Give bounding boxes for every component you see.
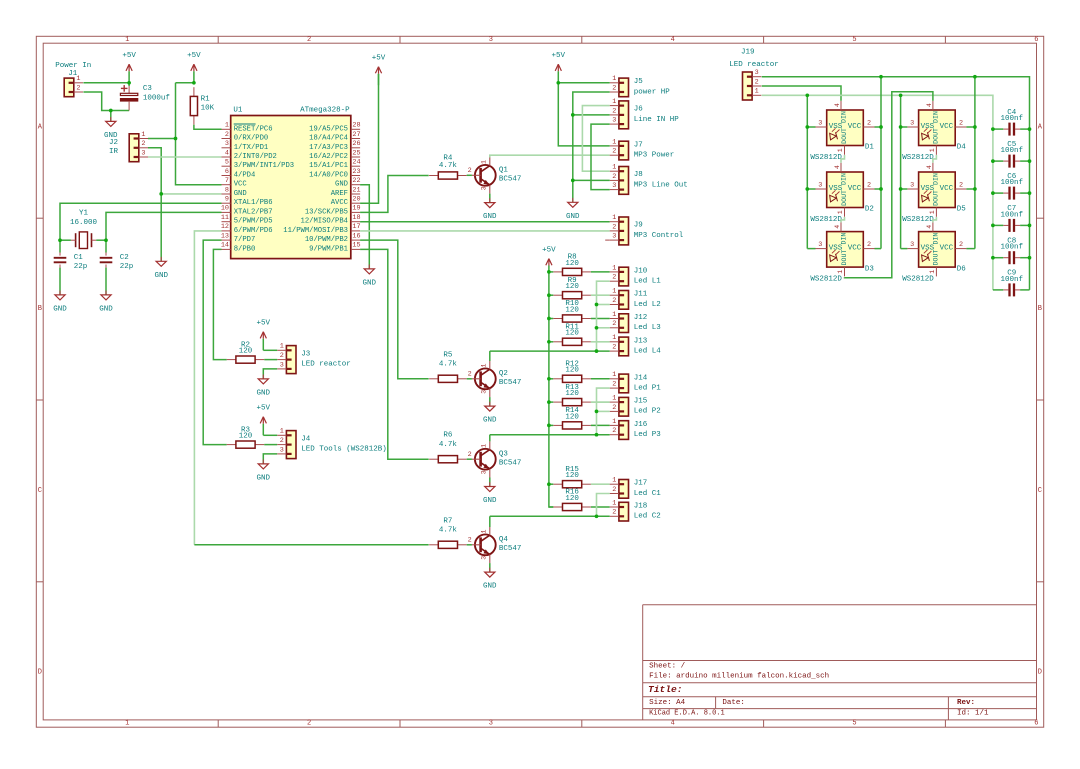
svg-text:WS2812D: WS2812D [902, 276, 934, 284]
svg-text:Sheet: /: Sheet: / [649, 662, 686, 670]
wire R10 right [591, 318, 610, 320]
svg-text:8/PB0: 8/PB0 [234, 245, 256, 253]
wire D2 DOUT to D3 DIN [841, 217, 845, 222]
svg-text:VCC: VCC [848, 185, 862, 193]
svg-text:15: 15 [352, 242, 360, 250]
wire Y1 right [96, 239, 106, 241]
svg-text:J5: J5 [634, 78, 644, 86]
svg-text:26: 26 [352, 140, 360, 148]
wire VCC branch col1 [875, 188, 882, 190]
resistor R9 [553, 277, 591, 299]
wire MISO to J9.1 [360, 221, 610, 223]
wire cap left [993, 224, 1003, 226]
resistor R6 [429, 432, 467, 463]
resistor R1 [190, 87, 214, 125]
svg-text:2: 2 [612, 427, 616, 435]
wire J1.2 to C3/GND [83, 92, 129, 111]
wire cap right [1020, 160, 1029, 162]
wire C2 to GND [105, 268, 107, 295]
J9 pin3 stub [605, 239, 610, 241]
connector J11 [610, 288, 661, 310]
title block [643, 605, 1037, 720]
svg-text:4.7k: 4.7k [439, 441, 458, 449]
wire C1 to GND [59, 268, 61, 295]
svg-text:Q3: Q3 [499, 451, 509, 459]
wire D5 DOUT to D6 DIN [933, 217, 937, 222]
svg-text:14: 14 [221, 242, 229, 250]
svg-text:+5V: +5V [372, 55, 386, 63]
wire GND bus [573, 92, 610, 202]
svg-text:GND: GND [257, 390, 271, 398]
svg-text:+5V: +5V [257, 320, 271, 328]
wire J4.3 to GND [263, 454, 277, 464]
svg-text:1: 1 [929, 270, 936, 274]
svg-text:1: 1 [280, 428, 284, 436]
wire PB2 to R5 [360, 240, 429, 379]
svg-text:4: 4 [225, 149, 229, 157]
svg-text:3: 3 [225, 140, 229, 148]
svg-text:4: 4 [834, 103, 841, 107]
svg-text:J4: J4 [301, 435, 311, 443]
junction [1028, 127, 1032, 131]
svg-text:B: B [38, 305, 42, 313]
svg-text:RESET/PC6: RESET/PC6 [234, 125, 273, 133]
LED driver D5 (WS2812D) [902, 163, 966, 224]
wire VCC branch col2 [966, 248, 975, 250]
svg-text:22: 22 [352, 177, 360, 185]
svg-text:D6: D6 [957, 265, 967, 273]
crystal Y1 16.000 [70, 210, 98, 249]
wire R7 to Q4 base [467, 544, 472, 546]
junction [991, 256, 995, 260]
svg-text:2: 2 [612, 344, 616, 352]
wire R6 to Q3 base [467, 458, 472, 460]
svg-text:12/MISO/PB4: 12/MISO/PB4 [301, 218, 348, 226]
resistor R3 [227, 426, 265, 448]
svg-text:8: 8 [225, 186, 229, 194]
svg-text:DOUT: DOUT [841, 128, 848, 144]
svg-text:VCC: VCC [848, 245, 862, 253]
svg-text:DOUT: DOUT [933, 128, 940, 144]
svg-text:WS2812D: WS2812D [810, 276, 842, 284]
resistor R12 [553, 361, 591, 383]
svg-text:VCC: VCC [940, 245, 954, 253]
svg-text:1: 1 [480, 160, 487, 164]
svg-text:20: 20 [352, 196, 360, 204]
wire cap right [1020, 128, 1029, 130]
svg-text:0/RX/PD0: 0/RX/PD0 [234, 135, 269, 143]
wire J6.3 to J8.3 [591, 124, 610, 190]
wire VSS branch col1 [807, 126, 815, 128]
svg-text:Id: 1/1: Id: 1/1 [957, 710, 989, 718]
svg-text:2: 2 [959, 241, 963, 249]
svg-text:3: 3 [612, 233, 616, 241]
svg-text:4/PD4: 4/PD4 [234, 172, 256, 180]
svg-text:4.7k: 4.7k [439, 527, 458, 535]
wire J1.1 to +5V [83, 82, 129, 84]
svg-text:12: 12 [221, 223, 229, 231]
wire PB0 to R2 [213, 249, 226, 359]
ground [104, 117, 118, 140]
svg-text:2: 2 [141, 140, 145, 148]
connector J13 [610, 334, 662, 356]
svg-text:2: 2 [468, 451, 472, 459]
junction [805, 125, 809, 129]
junction [595, 349, 599, 353]
svg-text:DIN: DIN [841, 111, 848, 123]
svg-text:J15: J15 [634, 398, 648, 406]
svg-text:WS2812D: WS2812D [902, 216, 934, 224]
svg-text:1: 1 [755, 88, 759, 96]
wire J2.2 to GND [148, 148, 161, 261]
svg-text:1: 1 [612, 395, 616, 403]
svg-text:D: D [1038, 669, 1042, 677]
wire J2.1 to VCC [148, 138, 176, 140]
svg-text:2: 2 [612, 107, 616, 115]
svg-text:2: 2 [468, 537, 472, 545]
svg-text:2: 2 [867, 181, 871, 189]
wire +5V to J7.1 [558, 83, 609, 146]
svg-text:2: 2 [468, 371, 472, 379]
svg-text:WS2812D: WS2812D [902, 154, 934, 162]
svg-text:5: 5 [852, 720, 856, 728]
svg-text:120: 120 [565, 330, 579, 338]
svg-text:120: 120 [565, 390, 579, 398]
wire J6.1 to J8.1 [582, 106, 609, 172]
svg-text:16.000: 16.000 [70, 219, 98, 227]
wire PD7 to R3 [203, 240, 227, 445]
svg-text:D4: D4 [957, 144, 967, 152]
ground [53, 291, 67, 314]
wire R15 right [591, 483, 610, 485]
connector J12 [610, 311, 662, 333]
svg-text:Led P3: Led P3 [634, 431, 662, 439]
junction [109, 109, 113, 113]
power +5V [552, 52, 566, 83]
svg-text:2: 2 [225, 131, 229, 139]
svg-text:DIN: DIN [841, 233, 848, 245]
svg-text:100nf: 100nf [1000, 115, 1023, 123]
wire J17-J18 pin2 bus [597, 494, 610, 517]
wire R8 left [549, 271, 553, 273]
wire col1 VCC bus [880, 77, 882, 249]
resistor R5 [429, 351, 467, 382]
svg-text:120: 120 [565, 306, 579, 314]
wire R8 right [591, 271, 610, 273]
svg-text:1/TX/PD1: 1/TX/PD1 [234, 144, 269, 152]
svg-text:13: 13 [221, 232, 229, 240]
wire XTAL1 [60, 203, 222, 240]
svg-text:DIN: DIN [933, 111, 940, 123]
svg-text:13/SCK/PB5: 13/SCK/PB5 [305, 208, 348, 216]
junction [127, 81, 131, 85]
wire cap left [993, 160, 1003, 162]
connector J18 [610, 499, 661, 521]
svg-text:J14: J14 [634, 374, 648, 382]
svg-text:R6: R6 [443, 432, 453, 440]
junction [104, 238, 108, 242]
junction [991, 191, 995, 195]
svg-text:KiCad E.D.A. 8.0.1: KiCad E.D.A. 8.0.1 [649, 710, 725, 718]
svg-text:2: 2 [612, 509, 616, 517]
wire cap left [993, 289, 1003, 291]
LED driver D4 (WS2812D) [902, 101, 966, 162]
wire Q3 collector row [490, 434, 610, 436]
svg-text:GND: GND [483, 497, 497, 505]
svg-text:Q4: Q4 [499, 536, 509, 544]
svg-text:10/PWM/PB2: 10/PWM/PB2 [305, 236, 348, 244]
svg-text:3: 3 [818, 119, 822, 127]
svg-text:VCC: VCC [940, 123, 954, 131]
svg-text:Date:: Date: [722, 699, 745, 707]
svg-text:GND: GND [363, 280, 377, 288]
LED driver D6 (WS2812D) [902, 222, 966, 283]
junction [1028, 159, 1032, 163]
svg-text:Led P2: Led P2 [634, 408, 661, 416]
svg-text:C2: C2 [120, 254, 129, 262]
wire U1 GND pin22 [360, 185, 369, 269]
wire GND to U1 pin8 [161, 193, 221, 195]
connector J19 [743, 69, 762, 100]
wire col2 VCC bus [974, 77, 976, 249]
svg-text:+5V: +5V [187, 52, 201, 60]
resistor R13 [553, 384, 591, 406]
wire Y1 left [60, 239, 71, 241]
svg-text:7: 7 [225, 177, 229, 185]
wire VSS branch col2 [901, 126, 908, 128]
svg-text:3: 3 [480, 470, 487, 474]
svg-text:25: 25 [352, 149, 360, 157]
svg-text:MP3 Power: MP3 Power [634, 152, 675, 160]
svg-text:1: 1 [612, 477, 616, 485]
resistor R14 [553, 407, 591, 429]
svg-text:IR: IR [109, 148, 119, 156]
svg-text:J19: J19 [741, 49, 755, 57]
svg-text:2: 2 [612, 173, 616, 181]
svg-text:Line IN HP: Line IN HP [634, 116, 680, 124]
svg-text:BC547: BC547 [499, 176, 522, 184]
svg-text:120: 120 [565, 495, 579, 503]
svg-text:4: 4 [834, 225, 841, 229]
LED driver D2 (WS2812D) [810, 163, 874, 224]
svg-text:Led C2: Led C2 [634, 513, 661, 521]
resistor R11 [553, 324, 591, 346]
svg-text:100nf: 100nf [1000, 211, 1023, 219]
junction [879, 125, 883, 129]
capacitor C7 100nf [1000, 205, 1023, 232]
svg-text:19/A5/PC5: 19/A5/PC5 [309, 125, 348, 133]
connector J14 [610, 371, 662, 393]
svg-text:11/PWM/MOSI/PB3: 11/PWM/MOSI/PB3 [283, 227, 348, 235]
svg-text:2: 2 [612, 486, 616, 494]
svg-text:+5V: +5V [122, 52, 136, 60]
svg-text:GND: GND [154, 272, 168, 280]
svg-text:4: 4 [671, 36, 675, 44]
svg-text:GND: GND [257, 475, 271, 483]
svg-text:2: 2 [307, 36, 311, 44]
svg-text:4: 4 [834, 165, 841, 169]
svg-text:24: 24 [352, 159, 360, 167]
svg-text:120: 120 [565, 472, 579, 480]
svg-text:18/A4/PC4: 18/A4/PC4 [309, 135, 348, 143]
wire R2 to J3.2 [264, 359, 277, 361]
wire +5V link [176, 82, 194, 84]
svg-text:Led L3: Led L3 [634, 324, 662, 332]
svg-text:1: 1 [612, 164, 616, 172]
wire R9 left [549, 294, 553, 296]
junction [556, 81, 560, 85]
svg-text:100nf: 100nf [1000, 179, 1023, 187]
svg-text:GND: GND [566, 213, 580, 221]
wire PD6 to R7 [194, 231, 221, 545]
svg-text:1: 1 [612, 75, 616, 83]
svg-text:1: 1 [612, 98, 616, 106]
ground [99, 291, 113, 314]
svg-text:U1: U1 [233, 106, 243, 114]
svg-text:DIN: DIN [933, 173, 940, 185]
svg-text:Q1: Q1 [499, 167, 509, 175]
svg-text:BC547: BC547 [499, 379, 522, 387]
wire D3 DOUT to D4 DIN [845, 92, 933, 278]
junction [595, 410, 599, 414]
svg-text:3: 3 [480, 556, 487, 560]
svg-text:1: 1 [612, 288, 616, 296]
svg-text:D3: D3 [865, 265, 875, 273]
svg-text:XTAL1/PB6: XTAL1/PB6 [234, 199, 273, 207]
junction [991, 159, 995, 163]
wire R15 left [549, 483, 553, 485]
svg-text:D1: D1 [865, 144, 875, 152]
svg-text:17/A3/PC3: 17/A3/PC3 [309, 144, 348, 152]
svg-text:1: 1 [612, 214, 616, 222]
wire J2.3 to U1 pin4 [148, 156, 222, 158]
junction [899, 125, 903, 129]
connector J17 [610, 477, 662, 499]
power +5V [542, 247, 556, 266]
svg-text:J13: J13 [634, 337, 648, 345]
transistor Q1 (Q1 BC547) [468, 158, 522, 194]
svg-text:3: 3 [910, 181, 914, 189]
svg-text:2: 2 [280, 352, 284, 360]
junction [879, 75, 883, 79]
svg-text:2: 2 [612, 297, 616, 305]
svg-text:5: 5 [225, 159, 229, 167]
svg-text:3: 3 [480, 390, 487, 394]
connector J4 [277, 428, 387, 459]
wire VCC rail [176, 83, 222, 185]
svg-text:4.7k: 4.7k [439, 361, 458, 369]
svg-text:28: 28 [352, 122, 360, 130]
svg-text:+5V: +5V [257, 405, 271, 413]
svg-text:9: 9 [225, 196, 229, 204]
wire R11 right [591, 341, 610, 343]
wire Q2 collector [489, 351, 491, 361]
svg-text:7/PD7: 7/PD7 [234, 236, 256, 244]
capacitor C5 100nf [1000, 141, 1023, 168]
svg-text:MP3 Line Out: MP3 Line Out [634, 181, 688, 189]
wire cap left [993, 128, 1003, 130]
svg-text:1: 1 [837, 270, 844, 274]
ground [483, 198, 497, 221]
wire R16 left [549, 506, 553, 508]
svg-text:2: 2 [867, 241, 871, 249]
wire J11.2 branch [597, 304, 610, 306]
svg-text:Rev:: Rev: [957, 699, 975, 707]
svg-text:DOUT: DOUT [933, 190, 940, 206]
svg-text:1000uf: 1000uf [143, 94, 171, 102]
power +5V [257, 320, 271, 351]
svg-text:C3: C3 [143, 85, 153, 93]
svg-text:14/A0/PC0: 14/A0/PC0 [309, 172, 348, 180]
svg-text:C: C [1038, 487, 1042, 495]
svg-text:C: C [38, 487, 42, 495]
svg-text:3: 3 [755, 69, 759, 77]
svg-text:3: 3 [280, 446, 284, 454]
svg-text:3: 3 [612, 182, 616, 190]
transistor Q2 (Q2 BC547) [468, 361, 522, 397]
connector J15 [610, 395, 661, 417]
svg-text:2: 2 [959, 119, 963, 127]
svg-text:1: 1 [612, 334, 616, 342]
capacitor C6 100nf [1000, 173, 1023, 200]
wire cap right [1020, 192, 1029, 194]
svg-text:2: 2 [755, 78, 759, 86]
junction [805, 93, 809, 97]
svg-text:Led L2: Led L2 [634, 301, 661, 309]
svg-text:J16: J16 [634, 421, 648, 429]
svg-text:XTAL2/PB7: XTAL2/PB7 [234, 208, 273, 216]
svg-text:VCC: VCC [848, 123, 862, 131]
svg-text:VCC: VCC [234, 181, 248, 189]
capacitor C3 1000uf [120, 83, 170, 111]
wire col2 VSS bus [900, 95, 902, 248]
wire D1 DOUT to D2 DIN [841, 155, 845, 163]
svg-text:R5: R5 [443, 351, 453, 359]
ground [566, 198, 580, 221]
svg-text:1: 1 [612, 499, 616, 507]
svg-text:1: 1 [612, 371, 616, 379]
junction [547, 317, 551, 321]
wire cap right [1020, 257, 1029, 259]
ground [483, 402, 497, 425]
svg-text:4: 4 [926, 225, 933, 229]
connector J6 [610, 98, 680, 129]
transistor Q4 (Q4 BC547) [468, 527, 522, 563]
svg-text:3/PWM/INT1/PD3: 3/PWM/INT1/PD3 [234, 162, 294, 170]
svg-text:2: 2 [612, 320, 616, 328]
wire PB1 to R6 [360, 249, 429, 459]
wire Q1 emitter to GND [489, 194, 491, 203]
svg-text:1: 1 [225, 122, 229, 130]
svg-text:6: 6 [1034, 36, 1038, 44]
capacitor C9 100nf [1000, 270, 1023, 297]
wire J14-J16 pin2 bus [597, 388, 610, 435]
junction [547, 377, 551, 381]
svg-text:2: 2 [468, 167, 472, 175]
svg-text:DIN: DIN [933, 233, 940, 245]
wire J10-J13 pin2 bus [597, 281, 610, 351]
capacitor C8 100nf [1000, 237, 1023, 264]
svg-text:2: 2 [612, 404, 616, 412]
svg-text:Title:: Title: [648, 684, 683, 695]
svg-text:2: 2 [867, 119, 871, 127]
wire R10 left [549, 318, 553, 320]
svg-text:D: D [38, 669, 42, 677]
svg-text:DOUT: DOUT [933, 250, 940, 266]
power +5V [257, 405, 271, 436]
svg-text:Led L4: Led L4 [634, 347, 662, 355]
connector J16 [610, 418, 662, 440]
